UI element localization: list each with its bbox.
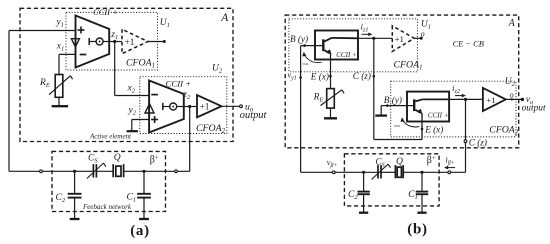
svg-text:C (z): C (z) — [469, 137, 487, 147]
svg-text:o: o — [421, 29, 425, 38]
svg-text:(a): (a) — [130, 223, 150, 239]
svg-text:CCII +: CCII + — [93, 7, 118, 17]
svg-text:CCII +: CCII + — [428, 111, 449, 119]
svg-text:Active element: Active element — [89, 132, 132, 140]
svg-text:CFOA2: CFOA2 — [196, 123, 226, 135]
svg-text:+1: +1 — [486, 95, 495, 105]
svg-text:CFOA2: CFOA2 — [489, 125, 519, 137]
svg-text:o: o — [510, 91, 514, 100]
svg-text:+1: +1 — [200, 102, 210, 112]
svg-text:B (y): B (y) — [384, 95, 402, 105]
svg-text:+1: +1 — [395, 34, 404, 44]
svg-text:E (x): E (x) — [310, 71, 329, 81]
svg-text:+1: +1 — [125, 37, 135, 47]
svg-text:E (x): E (x) — [424, 124, 443, 134]
svg-text:B (y): B (y) — [290, 34, 308, 44]
svg-text:CCII +: CCII + — [166, 78, 192, 88]
svg-text:CE − CB: CE − CB — [453, 39, 484, 48]
svg-text:C (z): C (z) — [353, 71, 371, 81]
svg-text:A: A — [508, 18, 516, 29]
svg-text:CFOA1: CFOA1 — [394, 59, 423, 71]
svg-text:Feeback network: Feeback network — [82, 203, 132, 211]
svg-text:output: output — [240, 110, 268, 121]
svg-text:≈∞: ≈∞ — [303, 63, 310, 68]
svg-text:Q: Q — [114, 153, 121, 163]
svg-text:output: output — [522, 104, 546, 114]
svg-text:(b): (b) — [407, 222, 427, 238]
svg-text:CCII +: CCII + — [336, 51, 357, 59]
svg-text:A: A — [220, 12, 229, 24]
svg-text:≈∞: ≈∞ — [394, 124, 401, 129]
svg-text:Q: Q — [396, 157, 403, 167]
svg-text:CFOA1: CFOA1 — [126, 57, 155, 69]
